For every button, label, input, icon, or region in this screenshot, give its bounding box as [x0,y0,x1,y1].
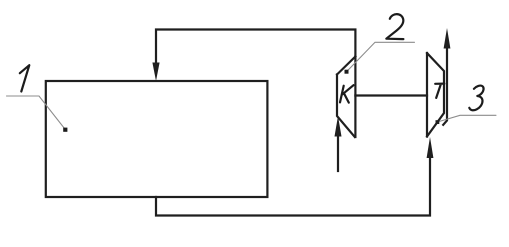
letter K inside compressor (glyph) [340,85,354,102]
wire: K right edge vertical (shared with top wire) [354,57,356,138]
arrowhead: up into T bottom inlet [427,137,434,158]
leader line for label 1 [7,96,65,129]
leader dot 3 [436,120,440,124]
leader line for label 2 [347,42,415,71]
leader dot 2 [345,70,349,74]
block 1 (combustion chamber rectangle) [46,81,268,197]
arrowhead: up at T exhaust [444,28,451,49]
wire: T exhaust line [443,42,447,125]
wire: bottom return line from block 1 to T inlet [156,152,430,216]
label 1 (digit glyph) [20,65,30,91]
turbine T (3) body [427,53,444,137]
compressor K (2) body [337,57,355,138]
label 3 (digit glyph) [469,86,483,111]
wire: K to T connector [355,94,427,96]
letter T inside turbine (glyph) [435,84,444,98]
wire: K inlet line [337,130,339,171]
label 2 (digit glyph) [386,14,403,39]
leader dot 1 [63,128,67,132]
wire: top recirculation line from K right edge to block 1 top [156,30,355,67]
arrowhead: up into K inlet [335,116,342,137]
leader line for label 3 [437,115,496,122]
arrowhead: down into block 1 top [152,63,159,82]
